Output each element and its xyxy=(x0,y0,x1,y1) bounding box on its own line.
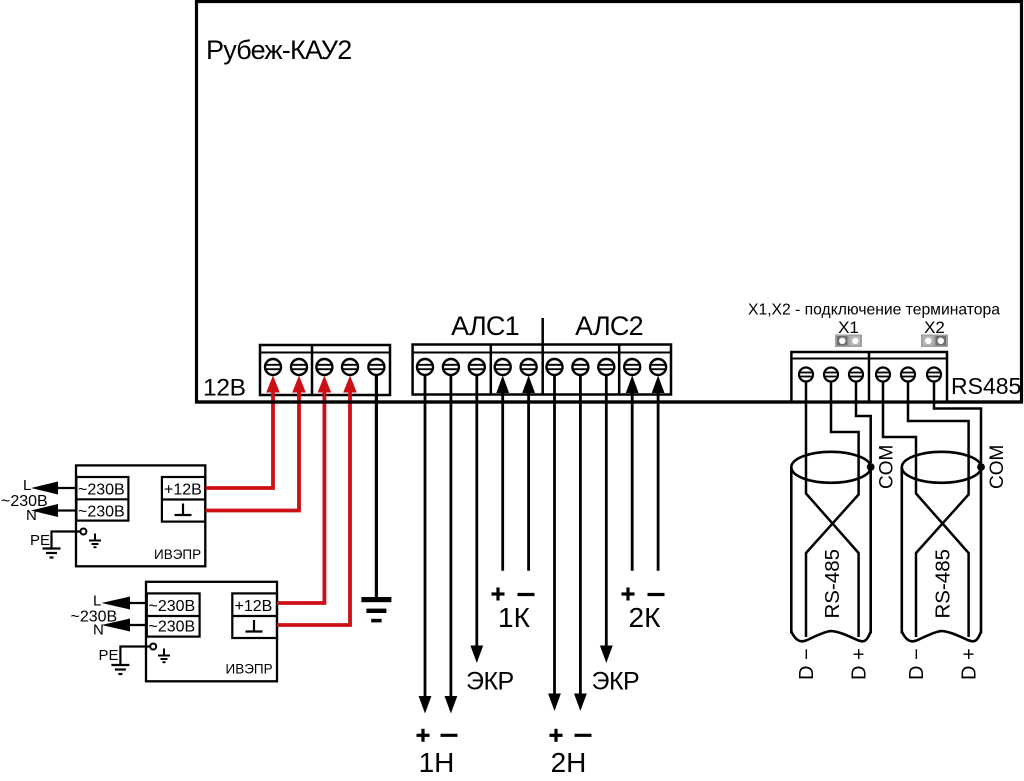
arrow up into pin 9 xyxy=(626,376,639,394)
terminal block АЛС outline xyxy=(413,345,671,395)
cable 1 RS-485 shield cylinder xyxy=(791,452,870,642)
terminal block АЛС pin 8 xyxy=(598,359,614,375)
svg-text:Х1: Х1 xyxy=(838,318,859,337)
terminal block 12В pin 2 xyxy=(291,359,307,375)
minus sign 1К xyxy=(518,593,535,596)
minus sign 2Н xyxy=(575,734,592,737)
arrow up into pin 4 xyxy=(496,376,509,394)
svg-text:~230В: ~230В xyxy=(78,482,125,499)
svg-text:~230В: ~230В xyxy=(149,619,196,636)
plus sign 1Н xyxy=(417,729,430,742)
terminal block АЛС pin 7 xyxy=(572,359,588,375)
svg-text:ЭКР: ЭКР xyxy=(592,668,640,696)
U1 L arrow xyxy=(31,482,76,495)
wire RS485 pin 2 to cable 1 conductor xyxy=(806,382,859,638)
svg-text:Х1,Х2 - подключение терминатор: Х1,Х2 - подключение терминатора xyxy=(748,302,1000,319)
divider line between АЛС1 and АЛС2 xyxy=(541,318,544,395)
node cable 1 COM junction dot xyxy=(867,463,875,471)
terminal block АЛС pin 5 xyxy=(521,359,537,375)
terminal block 12В pin 5 xyxy=(368,359,384,375)
jumper connector X1 xyxy=(835,335,862,348)
U1 N arrow xyxy=(31,504,76,517)
red wire U2 +12В to pin 3 xyxy=(277,387,324,603)
terminal block АЛС pin 1 xyxy=(417,359,433,375)
svg-text:1Н: 1Н xyxy=(419,747,455,778)
terminal block RS485 pin 2 xyxy=(824,368,838,382)
svg-text:ЭКР: ЭКР xyxy=(466,668,514,696)
svg-text:+12В: +12В xyxy=(235,598,273,615)
terminal block АЛС pin 9 xyxy=(624,359,640,375)
wire АЛС2 -2Н from pin 7 xyxy=(579,376,582,707)
U2 ⊥ common symbol xyxy=(246,620,263,632)
wire -2К from pin 10 xyxy=(657,388,660,571)
wire ЭКР2 from pin 8 xyxy=(605,376,608,659)
svg-text:D +: D + xyxy=(849,648,871,680)
terminal block RS485 pin 3 xyxy=(849,368,863,382)
U2 PE terminal circle xyxy=(150,644,156,650)
U1 PE wire xyxy=(52,532,81,548)
arrow up into pin 5 xyxy=(522,376,535,394)
terminal block АЛС pin 3 xyxy=(469,359,485,375)
U1 internal earth symbol xyxy=(89,534,101,548)
wire RS485 pin 3 to cable 1 shield xyxy=(856,382,871,464)
plus sign 2Н xyxy=(550,729,563,742)
terminal block 12В pin 3 xyxy=(316,359,332,375)
minus sign 1Н xyxy=(441,734,458,737)
red wire U2 ⊥ to pin 4 xyxy=(277,387,350,625)
svg-text:2Н: 2Н xyxy=(551,747,587,778)
minus sign 2К xyxy=(648,593,665,596)
terminal block АЛС pin 2 xyxy=(443,359,459,375)
U2 PE wire xyxy=(120,647,150,665)
terminal block АЛС pin 10 xyxy=(650,359,666,375)
wire АЛС1 -1Н from pin 2 xyxy=(449,376,452,710)
terminal block АЛС pin 6 xyxy=(547,359,563,375)
terminal block 12В pin 4 xyxy=(342,359,358,375)
terminal block 12В pin 1 xyxy=(265,359,281,375)
plus sign 2К xyxy=(622,588,635,601)
svg-text:PE: PE xyxy=(99,647,119,664)
U2 PE ground symbol xyxy=(111,665,129,674)
terminal block RS485 pin 5 xyxy=(901,368,915,382)
red wire U1 ⊥ to pin 2 xyxy=(206,387,300,511)
main unit Рубеж-КАУ2 box xyxy=(197,2,1022,403)
terminal block АЛС pin 4 xyxy=(495,359,511,375)
arrow down ЭКР2 xyxy=(600,646,613,664)
terminal block RS485 outline xyxy=(791,352,947,402)
terminal block RS485 pin 1 xyxy=(799,368,813,382)
wire RS485 pin 6 to cable 2 shield xyxy=(934,382,981,464)
arrow down 2Н minus xyxy=(574,694,587,712)
svg-text:~230В: ~230В xyxy=(78,504,125,521)
wire RS485 pin 5 to cable 2 conductor xyxy=(908,382,969,638)
svg-text:COM: COM xyxy=(987,445,1008,489)
wire ЭКР1 from pin 3 xyxy=(475,376,478,659)
svg-text:L: L xyxy=(93,593,101,610)
wire -1К from pin 5 xyxy=(527,388,530,571)
arrow down 1Н minus xyxy=(445,696,458,714)
wire АЛС1 +1Н from pin 1 xyxy=(424,376,427,710)
svg-text:Х2: Х2 xyxy=(924,318,945,337)
U1 PE ground symbol xyxy=(43,549,61,558)
red wire U1 +12В to pin 1 xyxy=(206,387,274,488)
red arrow into pin 1 xyxy=(266,376,280,393)
svg-text:+12В: +12В xyxy=(164,482,202,499)
wire +1К from pin 4 xyxy=(501,388,504,571)
wire RS485 pin 1 to cable 1 conductor xyxy=(806,382,859,638)
svg-text:~230В: ~230В xyxy=(1,493,48,510)
svg-text:~230В: ~230В xyxy=(149,598,196,615)
svg-text:RS485: RS485 xyxy=(951,373,1021,399)
terminal block RS485 pin 6 xyxy=(927,368,941,382)
svg-text:Рубеж-КАУ2: Рубеж-КАУ2 xyxy=(206,35,351,65)
wire main box bottom edge overdraw xyxy=(197,400,1021,403)
wire RS485 pin 4 to cable 2 conductor xyxy=(883,382,969,638)
wire АЛС2 +2Н from pin 6 xyxy=(553,376,556,707)
svg-text:L: L xyxy=(23,477,31,494)
svg-text:D −: D − xyxy=(906,648,928,680)
cable 2 RS-485 shield cylinder xyxy=(902,452,981,642)
svg-text:~230В: ~230В xyxy=(71,609,118,626)
arrow down ЭКР1 xyxy=(470,646,483,664)
svg-text:12В: 12В xyxy=(203,375,246,402)
red arrow into pin 3 xyxy=(318,376,332,393)
plus sign 1К xyxy=(492,588,505,601)
svg-text:D +: D + xyxy=(959,648,981,680)
arrow down 2Н plus xyxy=(548,694,561,712)
U1 ⊥ common symbol xyxy=(175,504,192,516)
svg-text:RS-485: RS-485 xyxy=(821,549,844,619)
svg-text:COM: COM xyxy=(877,445,898,489)
terminal block RS485 pin 4 xyxy=(876,368,890,382)
svg-text:1К: 1К xyxy=(498,602,531,633)
U1 PE terminal circle xyxy=(80,529,86,535)
svg-text:ИВЭПР: ИВЭПР xyxy=(154,547,201,562)
arrow down 1Н plus xyxy=(419,696,432,714)
jumper connector X2 xyxy=(921,335,948,348)
power supply U1 ИВЭПР box xyxy=(76,465,205,566)
arrow up into pin 10 xyxy=(652,376,665,394)
svg-text:АЛС2: АЛС2 xyxy=(575,311,643,341)
red arrow into pin 2 xyxy=(292,376,306,393)
svg-text:PE: PE xyxy=(30,532,50,549)
svg-text:ИВЭПР: ИВЭПР xyxy=(226,662,273,677)
svg-text:RS-485: RS-485 xyxy=(932,549,955,619)
terminal block 12В outline xyxy=(260,345,390,395)
red arrow into pin 4 xyxy=(343,376,357,393)
svg-text:АЛС1: АЛС1 xyxy=(451,311,519,341)
wire pin 5 to ground xyxy=(375,376,378,598)
U2 L arrow xyxy=(102,597,147,610)
svg-text:2К: 2К xyxy=(629,602,662,633)
svg-text:D −: D − xyxy=(796,648,818,680)
U2 internal earth symbol xyxy=(158,649,170,663)
ground symbol chassis xyxy=(361,597,391,622)
wire +2К from pin 9 xyxy=(631,388,634,571)
U2 N arrow xyxy=(102,619,147,632)
node cable 2 COM junction dot xyxy=(977,463,985,471)
power supply U2 ИВЭПР box xyxy=(146,582,277,682)
